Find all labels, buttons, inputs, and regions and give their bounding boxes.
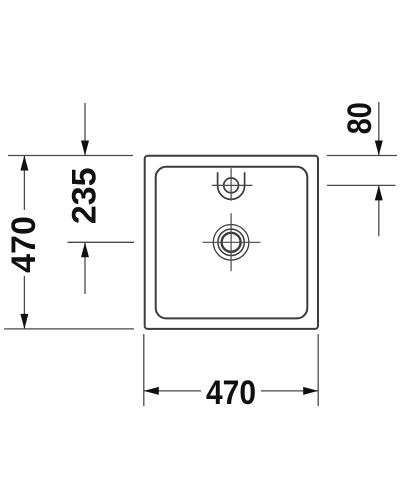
extension line drain level left — [68, 241, 135, 243]
faucet centerline vertical — [230, 168, 232, 201]
extension line top right — [327, 155, 397, 157]
dimension 80 lower line — [378, 185, 380, 236]
svg-text:470: 470 — [206, 374, 256, 412]
arrow up 470 left — [20, 156, 28, 171]
arrow up 80 bottom — [375, 185, 383, 200]
arrow down 235 top — [81, 141, 89, 156]
dimension 470 bottom line right segment — [261, 390, 318, 392]
drain outer circle — [213, 225, 249, 261]
svg-text:80: 80 — [341, 102, 379, 134]
dimension 235 lower line — [84, 242, 86, 294]
drain middle circle — [218, 229, 244, 255]
basin inner rounded rim — [156, 167, 308, 319]
svg-text:235: 235 — [66, 167, 104, 224]
extension line bottom left — [4, 328, 134, 330]
svg-text:470: 470 — [5, 216, 43, 273]
drain centerline vertical — [230, 213, 232, 271]
dimension 470 left line upper — [23, 156, 25, 211]
dimension 235 upper line — [84, 103, 86, 156]
arrow left 470 bottom — [144, 387, 159, 395]
faucet centerline horizontal — [212, 184, 253, 186]
extension line bottom dim left — [143, 334, 145, 406]
faucet hole circle — [224, 178, 239, 193]
drain inner circle — [222, 233, 241, 252]
faucet recess U arc — [218, 172, 245, 199]
extension line bottom dim right — [317, 334, 319, 406]
extension line faucet level right — [327, 184, 396, 186]
arrow right 470 bottom — [303, 387, 318, 395]
dimension 80 upper line — [378, 102, 380, 156]
arrow up 235 bottom — [81, 242, 89, 257]
arrow down 470 left — [20, 314, 28, 329]
dimension 470 left line lower — [23, 276, 25, 329]
drain centerline horizontal — [203, 241, 261, 243]
arrow down 80 top — [375, 141, 383, 156]
extension line top left — [8, 155, 133, 157]
dimension 470 bottom line left segment — [144, 390, 201, 392]
basin outer square — [145, 156, 318, 329]
